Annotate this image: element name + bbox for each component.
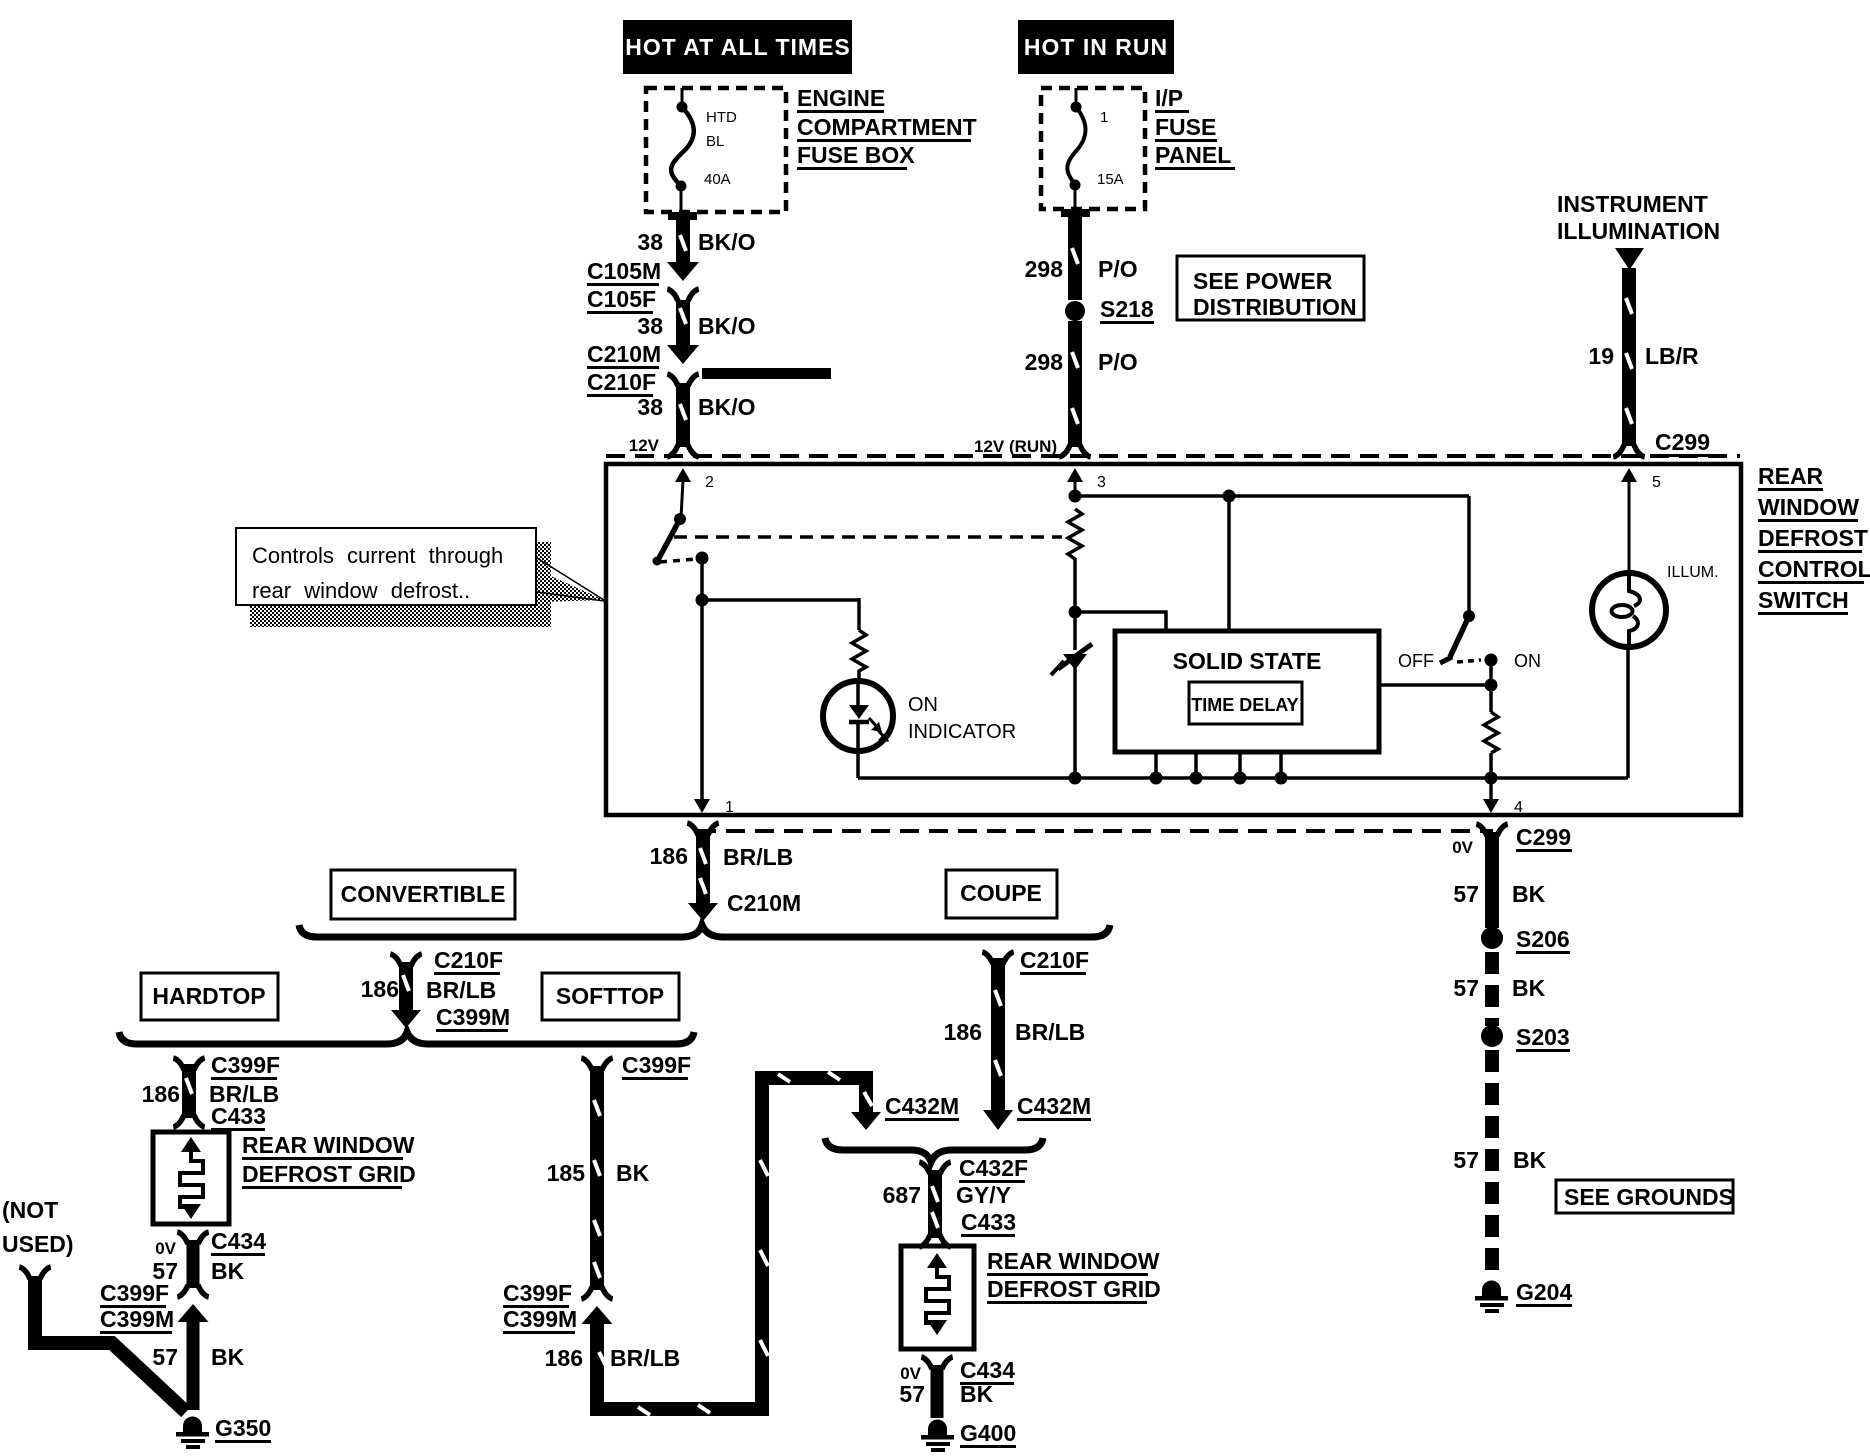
branch box HARDTOP bbox=[141, 973, 278, 1020]
switch common node bbox=[696, 552, 709, 565]
label 57 BK right upper bbox=[1453, 881, 1545, 907]
fuse value label 1 15A bbox=[1097, 109, 1124, 188]
solid state pin wires bbox=[1156, 752, 1281, 778]
svg-text:BK: BK bbox=[616, 1160, 650, 1186]
wire branch to LED resistor bbox=[702, 598, 859, 602]
label C399M convertible bbox=[436, 1004, 510, 1032]
label S203 bbox=[1516, 1024, 1570, 1052]
svg-text:C105M: C105M bbox=[587, 258, 661, 284]
label 298 P/O (1) bbox=[1025, 256, 1138, 282]
svg-text:BR/LB: BR/LB bbox=[426, 977, 496, 1003]
on-off switch feed wire bbox=[1467, 496, 1471, 612]
splice S206 bbox=[1481, 927, 1503, 949]
svg-text:C399F: C399F bbox=[211, 1052, 280, 1078]
splice S203 bbox=[1481, 1025, 1503, 1047]
label C210F coupe bbox=[1020, 947, 1089, 975]
svg-text:GY/Y: GY/Y bbox=[956, 1182, 1011, 1208]
svg-text:REAR WINDOW: REAR WINDOW bbox=[987, 1248, 1160, 1274]
svg-text:19: 19 bbox=[1588, 343, 1614, 369]
svg-text:C210F: C210F bbox=[1020, 947, 1089, 973]
wire resistor to junction bbox=[1073, 566, 1077, 612]
connector C399F/C399M hardtop ground bbox=[177, 1285, 208, 1322]
svg-text:COUPE: COUPE bbox=[960, 880, 1042, 906]
label ENGINE COMPARTMENT FUSE BOX bbox=[797, 85, 977, 170]
wire not used bbox=[19, 1267, 186, 1412]
svg-text:ON: ON bbox=[908, 694, 938, 716]
mechanical link dashed to resistor bbox=[674, 535, 1062, 539]
svg-text:C433: C433 bbox=[211, 1103, 266, 1129]
svg-text:C433: C433 bbox=[961, 1209, 1016, 1235]
pin 4 bbox=[1483, 799, 1523, 816]
pin 1 bbox=[694, 799, 734, 816]
label 57 BK right lower bbox=[1453, 1147, 1546, 1173]
svg-text:BK: BK bbox=[1512, 975, 1546, 1001]
svg-text:C105F: C105F bbox=[587, 286, 656, 312]
svg-text:C399M: C399M bbox=[503, 1306, 577, 1332]
label 19 LB/R bbox=[1588, 343, 1699, 369]
rear window defrost control switch box outline bbox=[606, 464, 1741, 815]
dashed rail bottom bbox=[697, 829, 1493, 833]
svg-text:1: 1 bbox=[725, 799, 734, 816]
connector C210M/C210F bbox=[667, 345, 699, 386]
svg-text:DEFROST: DEFROST bbox=[1758, 525, 1868, 551]
wire solid state to on-off bbox=[1379, 683, 1491, 687]
svg-text:rear window defrost..: rear window defrost.. bbox=[252, 578, 470, 603]
svg-text:SOLID STATE: SOLID STATE bbox=[1173, 648, 1322, 674]
label 186 BR/LB convertible bbox=[361, 976, 497, 1003]
label C434 hardtop bbox=[211, 1228, 266, 1256]
svg-text:ENGINE: ENGINE bbox=[797, 85, 885, 111]
blade link dashed (main) bbox=[660, 559, 696, 562]
svg-text:INDICATOR: INDICATOR bbox=[908, 721, 1016, 743]
label 186 BR/LB coupe bbox=[944, 1019, 1086, 1045]
off contact bbox=[1440, 657, 1452, 663]
junction pin3 top bbox=[1069, 490, 1082, 503]
svg-text:C399F: C399F bbox=[503, 1280, 572, 1306]
svg-text:57: 57 bbox=[1453, 975, 1479, 1001]
svg-text:C399F: C399F bbox=[100, 1280, 169, 1306]
wire left feed to solid state bbox=[1075, 612, 1166, 631]
wire LED to bus bbox=[856, 748, 860, 778]
svg-text:C210F: C210F bbox=[587, 369, 656, 395]
label REAR WINDOW DEFROST CONTROL SWITCH bbox=[1758, 463, 1870, 615]
wire 57 BK below grid hardtop bbox=[177, 1232, 208, 1288]
svg-text:DEFROST GRID: DEFROST GRID bbox=[242, 1161, 416, 1187]
svg-text:C299: C299 bbox=[1655, 429, 1710, 455]
svg-text:C210M: C210M bbox=[587, 341, 661, 367]
connector C105M/C105F bbox=[667, 262, 699, 301]
svg-text:DISTRIBUTION: DISTRIBUTION bbox=[1193, 294, 1357, 320]
svg-text:LB/R: LB/R bbox=[1645, 343, 1699, 369]
label C433 hardtop bbox=[211, 1103, 266, 1131]
label C399M hardtop ground bbox=[100, 1306, 174, 1334]
svg-text:HOT IN RUN: HOT IN RUN bbox=[1024, 34, 1168, 60]
spacer bar bbox=[702, 368, 831, 379]
wire 57 BK dashed S203-G204 bbox=[1485, 1050, 1499, 1279]
svg-text:687: 687 bbox=[883, 1182, 921, 1208]
svg-text:P/O: P/O bbox=[1098, 349, 1138, 375]
wire solid state top feed bbox=[1227, 496, 1231, 631]
solid state module box bbox=[1115, 631, 1379, 752]
on-off switch blade bbox=[1450, 616, 1469, 657]
svg-text:BR/LB: BR/LB bbox=[723, 844, 793, 870]
label 687 GY/Y bbox=[883, 1182, 1011, 1208]
svg-text:186: 186 bbox=[944, 1019, 982, 1045]
label (NOT USED) bbox=[2, 1197, 74, 1257]
label C433 coupe bbox=[961, 1209, 1016, 1237]
svg-text:HTD: HTD bbox=[706, 109, 737, 126]
svg-text:186: 186 bbox=[650, 843, 688, 869]
label G400 bbox=[960, 1420, 1016, 1448]
label C434 coupe bbox=[960, 1357, 1015, 1385]
time delay box bbox=[1189, 682, 1302, 724]
off-page arrow instrument illumination bbox=[1615, 248, 1644, 270]
svg-text:C210M: C210M bbox=[727, 890, 801, 916]
fuse value label HTD BL 40A bbox=[704, 109, 737, 188]
wire 186 BR/LB convertible bbox=[390, 954, 421, 1028]
label REAR WINDOW DEFROST GRID hardtop bbox=[242, 1132, 416, 1189]
wire 186 BR/LB hardtop bbox=[173, 1058, 204, 1127]
svg-text:C432M: C432M bbox=[885, 1093, 959, 1119]
label 298 P/O (2) bbox=[1025, 349, 1138, 375]
svg-text:P/O: P/O bbox=[1098, 256, 1138, 282]
svg-text:S218: S218 bbox=[1100, 296, 1154, 322]
wire 687 GY/Y bbox=[919, 1162, 950, 1247]
svg-text:BK/O: BK/O bbox=[698, 394, 756, 420]
resistor pin4 bbox=[1484, 712, 1498, 753]
svg-text:COMPARTMENT: COMPARTMENT bbox=[797, 114, 977, 140]
svg-text:298: 298 bbox=[1025, 349, 1064, 375]
connector C299 pin5 bbox=[1655, 429, 1711, 457]
wire 298 P/O lower bbox=[1059, 321, 1090, 457]
fuse HTD BL 40A bbox=[671, 88, 694, 212]
svg-text:SEE POWER: SEE POWER bbox=[1193, 268, 1333, 294]
splice S218 bbox=[1065, 301, 1085, 321]
wire 38 BK/O from C105F to C210M bbox=[676, 300, 690, 345]
pin 5 bbox=[1621, 468, 1661, 574]
svg-text:BR/LB: BR/LB bbox=[610, 1345, 680, 1371]
label G350 bbox=[215, 1415, 271, 1443]
label 38 BK/O (2) bbox=[637, 313, 755, 339]
label 185 BK softtop bbox=[547, 1160, 650, 1186]
label 186 BR/LB softtop bbox=[545, 1345, 681, 1371]
pin 3 bbox=[1067, 468, 1106, 496]
wire 57 BK from C299 bbox=[1476, 824, 1507, 928]
label 186 BR/LB hardtop bbox=[142, 1081, 280, 1107]
svg-text:38: 38 bbox=[637, 394, 663, 420]
svg-text:I/P: I/P bbox=[1155, 85, 1183, 111]
svg-text:12V: 12V bbox=[629, 436, 660, 455]
engine compartment fuse box outline bbox=[646, 88, 786, 212]
svg-text:57: 57 bbox=[1453, 881, 1479, 907]
junction solid state left feed bbox=[1069, 606, 1082, 619]
diode D1 bbox=[1051, 612, 1092, 778]
label I/P FUSE PANEL bbox=[1155, 85, 1235, 170]
label C432M left bbox=[885, 1093, 959, 1121]
svg-text:C432M: C432M bbox=[1017, 1093, 1091, 1119]
wire 57 BK dashed S206-S203 bbox=[1485, 952, 1499, 1026]
label ON INDICATOR bbox=[908, 694, 1016, 743]
svg-text:USED): USED) bbox=[2, 1231, 74, 1257]
label C399F softtop lower bbox=[503, 1280, 572, 1308]
ground G350 bbox=[176, 1417, 209, 1449]
dashed rail top bbox=[606, 454, 1740, 458]
label S206 bbox=[1516, 926, 1570, 954]
svg-text:DEFROST GRID: DEFROST GRID bbox=[987, 1276, 1161, 1302]
branch box CONVERTIBLE bbox=[331, 870, 515, 919]
header HOT AT ALL TIMES bbox=[623, 20, 852, 74]
svg-text:TIME DELAY: TIME DELAY bbox=[1191, 695, 1298, 715]
svg-text:57: 57 bbox=[152, 1344, 178, 1370]
svg-text:0V: 0V bbox=[1452, 838, 1473, 857]
ground G400 bbox=[921, 1420, 954, 1453]
wire 186 BR/LB coupe bbox=[982, 952, 1013, 1130]
svg-text:FUSE: FUSE bbox=[1155, 114, 1216, 140]
svg-text:C434: C434 bbox=[211, 1228, 266, 1254]
label 186 BR/LB pin1 bbox=[650, 843, 794, 870]
svg-text:SOFTTOP: SOFTTOP bbox=[556, 983, 664, 1009]
label 57 BK right mid bbox=[1453, 975, 1545, 1001]
wire on contact down bbox=[1489, 660, 1493, 712]
svg-text:(NOT: (NOT bbox=[2, 1197, 58, 1223]
wire 57 BK below grid coupe bbox=[921, 1357, 952, 1418]
wire pin1 column bbox=[696, 558, 709, 800]
svg-text:REAR WINDOW: REAR WINDOW bbox=[242, 1132, 415, 1158]
on-off switch pivot bbox=[1463, 610, 1475, 622]
brace convertible/coupe bbox=[299, 925, 1110, 937]
label C399F softtop bbox=[622, 1052, 691, 1080]
wire 38 BK/O from C210F to switch pin 2 bbox=[667, 383, 698, 457]
svg-text:57: 57 bbox=[1453, 1147, 1479, 1173]
svg-text:BL: BL bbox=[706, 133, 724, 150]
switch blade pivot (main) bbox=[674, 513, 686, 525]
svg-text:57: 57 bbox=[899, 1381, 925, 1407]
svg-text:3: 3 bbox=[1097, 474, 1106, 491]
svg-text:SEE GROUNDS: SEE GROUNDS bbox=[1564, 1184, 1734, 1210]
pin 2 bbox=[675, 468, 714, 518]
label G204 bbox=[1516, 1279, 1572, 1307]
brace hardtop/softtop bbox=[119, 1032, 694, 1044]
svg-text:C434: C434 bbox=[960, 1357, 1015, 1383]
wire resistor to LED bbox=[857, 676, 861, 684]
svg-text:HOT AT ALL TIMES: HOT AT ALL TIMES bbox=[625, 34, 851, 60]
switch blade (main) bbox=[658, 519, 680, 560]
svg-text:ILLUM.: ILLUM. bbox=[1667, 564, 1719, 581]
resistor heater element bbox=[1068, 509, 1082, 566]
wire 19 LB/R bbox=[1613, 268, 1644, 457]
svg-text:C210F: C210F bbox=[434, 947, 503, 973]
wire resistor to pin4 bbox=[1489, 753, 1493, 800]
svg-text:C399M: C399M bbox=[100, 1306, 174, 1332]
note box SEE GROUNDS bbox=[1556, 1180, 1734, 1213]
svg-text:BR/LB: BR/LB bbox=[1015, 1019, 1085, 1045]
branch box COUPE bbox=[946, 870, 1057, 918]
svg-text:186: 186 bbox=[545, 1345, 583, 1371]
label C432F bbox=[959, 1155, 1028, 1183]
junction on-off column bbox=[1485, 679, 1498, 692]
label C432M right bbox=[1017, 1093, 1091, 1121]
label C399F hardtop ground bbox=[100, 1280, 169, 1308]
wire 186 BR/LB softtop route to C432M bbox=[597, 1072, 881, 1415]
svg-text:298: 298 bbox=[1025, 256, 1064, 282]
wire 186 BR/LB from pin1 bbox=[687, 823, 718, 921]
svg-text:BK: BK bbox=[1513, 1147, 1547, 1173]
svg-text:1: 1 bbox=[1100, 109, 1108, 126]
bus junction dots bbox=[1069, 772, 1498, 785]
svg-text:WINDOW: WINDOW bbox=[1758, 494, 1859, 520]
connector C399F/C399M softtop bbox=[581, 1287, 612, 1324]
svg-text:G350: G350 bbox=[215, 1415, 271, 1441]
svg-text:0V: 0V bbox=[155, 1239, 176, 1258]
svg-text:BK/O: BK/O bbox=[698, 229, 756, 255]
svg-text:G400: G400 bbox=[960, 1420, 1016, 1446]
illumination lamp bbox=[1592, 573, 1666, 647]
label 57 BK hardtop lower bbox=[152, 1344, 244, 1370]
svg-text:186: 186 bbox=[361, 976, 399, 1002]
rear window defrost grid hardtop bbox=[153, 1132, 229, 1224]
svg-text:38: 38 bbox=[637, 229, 663, 255]
svg-text:ON: ON bbox=[1514, 651, 1541, 671]
label C399F hardtop bbox=[211, 1052, 280, 1080]
wire 38 BK/O from fuse box to C105M bbox=[668, 212, 697, 262]
resistor LED series bbox=[852, 630, 866, 676]
LED ON indicator bbox=[823, 681, 893, 751]
on contact node bbox=[1485, 654, 1498, 667]
label C399M softtop lower bbox=[503, 1306, 577, 1334]
label 57 BK hardtop upper bbox=[152, 1258, 244, 1284]
svg-text:40A: 40A bbox=[704, 171, 731, 188]
svg-text:CONTROL: CONTROL bbox=[1758, 556, 1870, 582]
svg-text:ILLUMINATION: ILLUMINATION bbox=[1557, 218, 1720, 244]
fuse 1 15A bbox=[1067, 88, 1085, 209]
svg-text:38: 38 bbox=[637, 313, 663, 339]
svg-text:C399M: C399M bbox=[436, 1004, 510, 1030]
svg-text:2: 2 bbox=[705, 474, 714, 491]
blade link dashed on-off bbox=[1457, 660, 1481, 662]
svg-text:C399F: C399F bbox=[622, 1052, 691, 1078]
svg-text:REAR: REAR bbox=[1758, 463, 1824, 489]
svg-text:FUSE BOX: FUSE BOX bbox=[797, 142, 915, 168]
label C210F bbox=[587, 369, 656, 397]
wire lamp to bus bbox=[1626, 647, 1630, 778]
branch box SOFTTOP bbox=[542, 973, 679, 1020]
svg-text:BK: BK bbox=[1512, 881, 1546, 907]
junction solid state feed bbox=[1223, 490, 1236, 503]
svg-text:S203: S203 bbox=[1516, 1024, 1570, 1050]
brace C432 merge bbox=[825, 1138, 1043, 1162]
svg-text:S206: S206 bbox=[1516, 926, 1570, 952]
label 57 BK coupe bbox=[899, 1381, 993, 1407]
svg-text:C299: C299 bbox=[1516, 824, 1571, 850]
svg-text:OFF: OFF bbox=[1398, 651, 1434, 671]
svg-text:186: 186 bbox=[142, 1081, 180, 1107]
ground G204 bbox=[1475, 1281, 1508, 1314]
label INSTRUMENT ILLUMINATION bbox=[1557, 191, 1720, 244]
wire pin3 to on-off switch bbox=[1075, 494, 1469, 498]
note box SEE POWER DISTRIBUTION bbox=[1177, 256, 1364, 320]
svg-text:4: 4 bbox=[1514, 799, 1523, 816]
wire 57 BK to G350 bbox=[187, 1322, 200, 1410]
svg-text:BK: BK bbox=[211, 1258, 245, 1284]
I/P fuse panel outline bbox=[1041, 88, 1145, 209]
svg-text:HARDTOP: HARDTOP bbox=[152, 983, 265, 1009]
svg-text:5: 5 bbox=[1652, 474, 1661, 491]
svg-text:185: 185 bbox=[547, 1160, 586, 1186]
svg-text:BK: BK bbox=[960, 1381, 994, 1407]
wire 298 P/O upper bbox=[1061, 209, 1090, 300]
label 38 BK/O (1) bbox=[637, 229, 755, 255]
svg-text:BK: BK bbox=[211, 1344, 245, 1370]
svg-text:Controls current through: Controls current through bbox=[252, 543, 503, 568]
label C299 bottom bbox=[1516, 824, 1572, 852]
wire LED drop bbox=[857, 598, 861, 630]
svg-text:PANEL: PANEL bbox=[1155, 142, 1231, 168]
svg-text:SWITCH: SWITCH bbox=[1758, 587, 1849, 613]
label S218 bbox=[1100, 296, 1154, 324]
svg-text:CONVERTIBLE: CONVERTIBLE bbox=[341, 881, 506, 907]
wire 185 BK softtop bbox=[581, 1058, 612, 1290]
rear window defrost grid coupe bbox=[901, 1246, 974, 1349]
svg-text:15A: 15A bbox=[1097, 171, 1124, 188]
svg-text:C432F: C432F bbox=[959, 1155, 1028, 1181]
label 38 BK/O (3) bbox=[637, 394, 755, 420]
callout note box bbox=[236, 528, 604, 627]
svg-text:12V (RUN): 12V (RUN) bbox=[974, 437, 1057, 456]
label C210M bbox=[587, 341, 661, 369]
label C105M bbox=[587, 258, 661, 286]
label C105F bbox=[587, 286, 656, 314]
svg-text:G204: G204 bbox=[1516, 1279, 1572, 1305]
svg-text:INSTRUMENT: INSTRUMENT bbox=[1557, 191, 1708, 217]
label C210F convertible bbox=[434, 947, 503, 975]
label REAR WINDOW DEFROST GRID coupe bbox=[987, 1248, 1161, 1304]
svg-text:BK/O: BK/O bbox=[698, 313, 756, 339]
bus wire bottom bbox=[858, 776, 1628, 780]
header HOT IN RUN bbox=[1018, 20, 1174, 74]
